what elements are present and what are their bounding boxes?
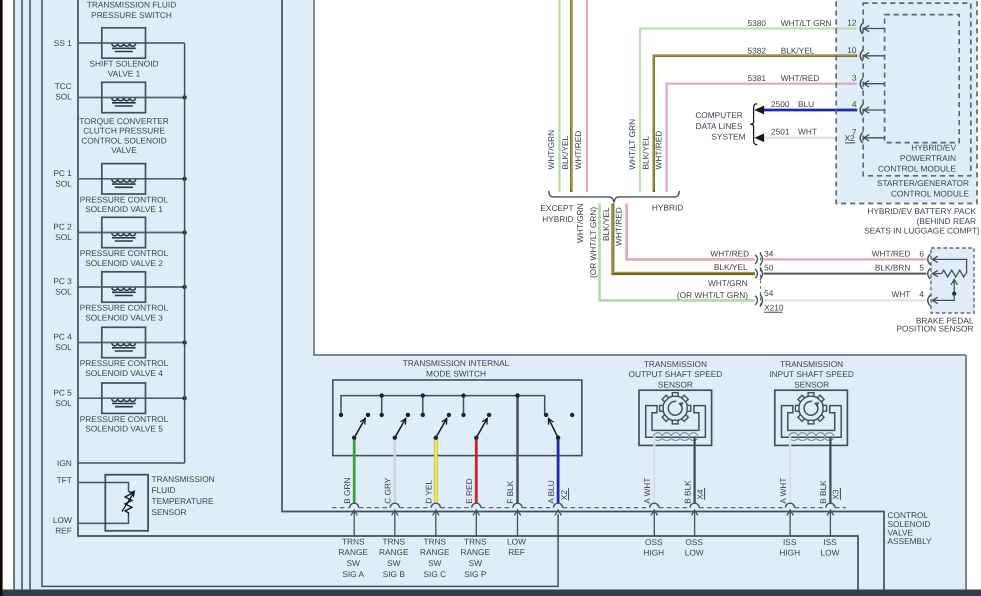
svg-text:F BLK: F BLK bbox=[505, 480, 515, 504]
svg-text:2501: 2501 bbox=[771, 127, 790, 137]
connector bump at 435.8 bbox=[431, 503, 440, 507]
svg-text:HYBRID: HYBRID bbox=[542, 214, 573, 224]
svg-text:WHT/RED: WHT/RED bbox=[614, 207, 624, 246]
svg-text:SOLENOID VALVE 5: SOLENOID VALVE 5 bbox=[85, 424, 163, 434]
svg-text:CONTROL MODULE: CONTROL MODULE bbox=[891, 189, 970, 199]
module pin 12 bbox=[860, 23, 863, 34]
svg-text:(OR WHT/LT GRN): (OR WHT/LT GRN) bbox=[677, 290, 748, 300]
svg-text:SEATS IN LUGGAGE COMPT): SEATS IN LUGGAGE COMPT) bbox=[864, 226, 980, 236]
wire (left bus 1) bbox=[13, 0, 15, 590]
svg-text:(BEHIND REAR: (BEHIND REAR bbox=[917, 216, 976, 226]
svg-text:WHT: WHT bbox=[891, 289, 910, 299]
arrows to computer data lines system bbox=[756, 106, 764, 113]
wire BLK/BRN to brake pedal sensor bbox=[764, 273, 927, 275]
mode switch contacts bbox=[339, 413, 343, 417]
svg-text:INPUT SHAFT SPEED: INPUT SHAFT SPEED bbox=[769, 369, 854, 379]
svg-text:SOLENOID VALVE 2: SOLENOID VALVE 2 bbox=[85, 258, 163, 268]
svg-text:POWERTRAIN: POWERTRAIN bbox=[900, 153, 956, 163]
svg-text:LOW: LOW bbox=[685, 548, 704, 558]
svg-text:SOLENOID VALVE 1: SOLENOID VALVE 1 bbox=[85, 204, 163, 214]
connector bump at 517.5 bbox=[513, 503, 522, 507]
svg-text:BLK/BRN: BLK/BRN bbox=[875, 262, 911, 272]
wire WHT/GRN (except hybrid) bbox=[558, 0, 560, 192]
switch blade 1 bbox=[354, 418, 365, 437]
wire 5380 WHT/LT GRN (hybrid) bbox=[640, 29, 857, 193]
svg-text:LOW: LOW bbox=[821, 548, 840, 558]
svg-text:SOL: SOL bbox=[55, 92, 72, 102]
svg-text:SIG B: SIG B bbox=[383, 569, 406, 579]
svg-text:FLUID: FLUID bbox=[152, 485, 176, 495]
svg-text:TCC: TCC bbox=[55, 81, 72, 91]
svg-text:X4: X4 bbox=[695, 489, 705, 500]
svg-text:SOLENOID VALVE 4: SOLENOID VALVE 4 bbox=[85, 368, 163, 378]
switch blade 5 (leans left) bbox=[549, 418, 559, 437]
connector bump at 354.2 bbox=[350, 503, 359, 507]
svg-text:E RED: E RED bbox=[464, 478, 474, 503]
svg-text:HYBRID/EV BATTERY PACK: HYBRID/EV BATTERY PACK bbox=[867, 206, 976, 216]
svg-text:PRESSURE SWITCH: PRESSURE SWITCH bbox=[91, 10, 172, 20]
svg-text:TRNS: TRNS bbox=[342, 536, 365, 546]
wire BLK/YEL (except hybrid) bbox=[570, 0, 573, 192]
svg-text:WHT/GRN: WHT/GRN bbox=[708, 278, 748, 288]
wire OSS A WHT bbox=[653, 437, 655, 504]
svg-text:CONTROL MODULE: CONTROL MODULE bbox=[878, 163, 957, 173]
svg-text:TRANSMISSION: TRANSMISSION bbox=[152, 474, 215, 484]
svg-text:HYBRID/EV: HYBRID/EV bbox=[911, 143, 956, 153]
wire OSS B BLK bbox=[693, 437, 695, 504]
svg-text:TRANSMISSION FLUID: TRANSMISSION FLUID bbox=[87, 0, 176, 10]
svg-text:X3: X3 bbox=[831, 489, 841, 500]
svg-text:OUTPUT SHAFT SPEED: OUTPUT SHAFT SPEED bbox=[629, 369, 723, 379]
wire 5381 WHT/RED (hybrid) bbox=[667, 84, 858, 192]
wire 2500 BLU (computer data line) bbox=[763, 109, 857, 112]
switch blade 2 bbox=[395, 418, 406, 437]
svg-text:(OR WHT/LT GRN): (OR WHT/LT GRN) bbox=[588, 207, 598, 278]
svg-text:PC 2: PC 2 bbox=[53, 222, 72, 232]
switch blade 4 bbox=[476, 418, 487, 437]
module pin 3 bbox=[860, 78, 863, 89]
svg-text:PC 1: PC 1 bbox=[53, 168, 72, 178]
svg-text:SHIFT SOLENOID: SHIFT SOLENOID bbox=[89, 59, 158, 69]
wire WHT/RED to X210 bbox=[627, 204, 755, 260]
wire (left bus 2) bbox=[21, 0, 23, 590]
svg-text:WHT/RED: WHT/RED bbox=[872, 248, 911, 258]
svg-text:B GRN: B GRN bbox=[342, 478, 352, 504]
svg-text:TORQUE CONVERTER: TORQUE CONVERTER bbox=[79, 116, 169, 126]
svg-text:5380: 5380 bbox=[748, 18, 767, 28]
svg-text:BLK/YEL: BLK/YEL bbox=[601, 207, 611, 241]
wire C GRY bbox=[393, 438, 396, 504]
svg-text:EXCEPT: EXCEPT bbox=[540, 203, 573, 213]
control solenoid valve assembly outline (outer path) bbox=[78, 0, 858, 590]
module pin 7 bbox=[860, 132, 863, 143]
wire: solenoid feed bus bbox=[184, 43, 186, 463]
svg-text:6: 6 bbox=[919, 248, 924, 258]
bottom frame bar bbox=[0, 590, 981, 596]
svg-text:SOL: SOL bbox=[55, 342, 72, 352]
svg-text:COMPUTER: COMPUTER bbox=[695, 110, 742, 120]
connector bump at 476.3 bbox=[472, 503, 481, 507]
svg-text:SENSOR: SENSOR bbox=[152, 507, 187, 517]
wire D YEL bbox=[434, 438, 438, 504]
svg-text:PC 5: PC 5 bbox=[53, 387, 72, 397]
svg-text:34: 34 bbox=[764, 248, 774, 258]
svg-text:LOW: LOW bbox=[507, 536, 526, 546]
svg-text:BLU: BLU bbox=[798, 99, 814, 109]
solenoid TCC bbox=[78, 97, 185, 99]
left frame border bbox=[0, 0, 3, 596]
svg-text:REF: REF bbox=[508, 547, 525, 557]
svg-text:SW: SW bbox=[387, 558, 401, 568]
svg-text:SOL: SOL bbox=[55, 179, 72, 189]
wire F BLK bbox=[516, 396, 519, 504]
connector bump at 558.1 bbox=[554, 503, 563, 507]
wire BLK/YEL to X210 bbox=[613, 204, 755, 274]
bus contact stub x=463.5 bbox=[463, 396, 465, 415]
svg-text:B BLK: B BLK bbox=[818, 480, 828, 504]
svg-text:ASSEMBLY: ASSEMBLY bbox=[888, 536, 933, 546]
svg-text:RANGE: RANGE bbox=[461, 547, 491, 557]
svg-text:WHT/RED: WHT/RED bbox=[654, 131, 664, 170]
bus junction F bbox=[515, 393, 519, 397]
svg-text:WHT/RED: WHT/RED bbox=[781, 73, 820, 83]
svg-text:TRANSMISSION INTERNAL: TRANSMISSION INTERNAL bbox=[403, 358, 510, 368]
signal arrows into connector bbox=[353, 510, 355, 536]
svg-text:SYSTEM: SYSTEM bbox=[711, 132, 745, 142]
module pin 10 bbox=[860, 50, 863, 61]
wire 5382 BLK/YEL (hybrid) bbox=[654, 56, 857, 192]
solenoid PC3 bbox=[78, 286, 185, 288]
solenoid PC4 bbox=[78, 342, 185, 344]
interior boundary edges bbox=[313, 0, 315, 355]
svg-text:SIG A: SIG A bbox=[342, 569, 364, 579]
svg-text:12: 12 bbox=[847, 18, 857, 28]
svg-text:OSS: OSS bbox=[645, 537, 663, 547]
svg-text:RANGE: RANGE bbox=[379, 547, 409, 557]
svg-text:BLK/YEL: BLK/YEL bbox=[641, 135, 651, 169]
svg-text:VALVE: VALVE bbox=[111, 145, 137, 155]
svg-text:ISS: ISS bbox=[783, 537, 797, 547]
svg-text:MODE SWITCH: MODE SWITCH bbox=[426, 369, 486, 379]
svg-text:5382: 5382 bbox=[748, 45, 767, 55]
wire 2501 WHT (computer data line) bbox=[763, 137, 857, 139]
wire IGN bbox=[78, 462, 185, 464]
svg-text:TRNS: TRNS bbox=[464, 536, 487, 546]
bus contact stub x=381.7 bbox=[381, 396, 383, 415]
svg-text:5381: 5381 bbox=[748, 73, 767, 83]
svg-text:TEMPERATURE: TEMPERATURE bbox=[152, 496, 215, 506]
svg-text:ISS: ISS bbox=[823, 537, 837, 547]
hybrid/ev battery pack interior fill bbox=[836, 0, 977, 204]
svg-text:WHT/GRN: WHT/GRN bbox=[575, 203, 585, 243]
connector row (dashed) bbox=[332, 507, 350, 509]
svg-text:WHT/RED: WHT/RED bbox=[710, 248, 749, 258]
svg-text:TRANSMISSION: TRANSMISSION bbox=[780, 359, 843, 369]
svg-text:X2: X2 bbox=[844, 133, 855, 143]
hybrid/ev powertrain control module (inner dashed box) bbox=[885, 15, 960, 143]
svg-text:SS 1: SS 1 bbox=[54, 38, 72, 48]
svg-text:PRESSURE CONTROL: PRESSURE CONTROL bbox=[80, 303, 169, 313]
svg-text:SOL: SOL bbox=[55, 232, 72, 242]
wire ISS B BLK bbox=[829, 437, 831, 504]
svg-text:POSITION SENSOR: POSITION SENSOR bbox=[897, 323, 974, 333]
svg-text:10: 10 bbox=[847, 45, 857, 55]
svg-text:WHT/RED: WHT/RED bbox=[573, 131, 583, 170]
connector bump at 790.1 bbox=[786, 503, 795, 507]
svg-text:X2: X2 bbox=[559, 490, 569, 501]
bus contact stub x=422.8 bbox=[422, 396, 424, 415]
solenoid PC1 bbox=[78, 178, 185, 180]
svg-text:SOL: SOL bbox=[55, 398, 72, 408]
svg-text:SOLENOID VALVE 3: SOLENOID VALVE 3 bbox=[85, 312, 163, 322]
connector bump at 694.6 bbox=[690, 503, 699, 507]
svg-text:PRESSURE CONTROL: PRESSURE CONTROL bbox=[80, 248, 169, 258]
wire E RED bbox=[475, 438, 478, 504]
svg-text:RANGE: RANGE bbox=[420, 547, 450, 557]
svg-text:SW: SW bbox=[469, 558, 483, 568]
solenoid PC5 bbox=[78, 397, 185, 399]
svg-text:3: 3 bbox=[852, 73, 857, 83]
wire ISS A WHT bbox=[789, 437, 791, 504]
transmission fluid temperature sensor bbox=[78, 483, 129, 492]
svg-text:X210: X210 bbox=[764, 302, 784, 312]
svg-text:54: 54 bbox=[764, 288, 774, 298]
svg-text:TRANSMISSION: TRANSMISSION bbox=[644, 359, 707, 369]
wire B GRN bbox=[353, 438, 356, 504]
connector bump at 830.4 bbox=[826, 503, 835, 507]
module pin 4 bbox=[860, 105, 863, 116]
svg-text:REF: REF bbox=[55, 526, 72, 536]
svg-text:RANGE: RANGE bbox=[338, 547, 368, 557]
mode switch bus bbox=[341, 396, 545, 415]
svg-text:C GRY: C GRY bbox=[383, 477, 393, 504]
svg-text:WHT/GRN: WHT/GRN bbox=[546, 130, 556, 170]
brace: except-hybrid / hybrid merge bbox=[549, 191, 680, 203]
svg-text:2500: 2500 bbox=[771, 99, 790, 109]
svg-text:SW: SW bbox=[428, 558, 442, 568]
svg-text:4: 4 bbox=[919, 289, 924, 299]
wire A BLU bbox=[557, 438, 560, 504]
svg-text:WHT/LT GRN: WHT/LT GRN bbox=[627, 119, 637, 170]
wire: LOW REF return (left riser, bottom run to X2 pin A) bbox=[42, 0, 558, 586]
svg-text:VALVE 1: VALVE 1 bbox=[108, 68, 141, 78]
svg-text:SOL: SOL bbox=[55, 287, 72, 297]
svg-text:WHT: WHT bbox=[798, 127, 817, 137]
svg-text:BLK/YEL: BLK/YEL bbox=[781, 45, 815, 55]
brace: computer data lines system bbox=[750, 104, 757, 145]
connector bump at 654.3 bbox=[650, 503, 659, 507]
wire (left bus 3) bbox=[29, 0, 31, 590]
wire WHT/RED to brake pedal sensor bbox=[764, 258, 927, 260]
solenoid PC2 bbox=[78, 232, 185, 234]
svg-text:4: 4 bbox=[852, 99, 857, 109]
wire WHT/RED (except hybrid) bbox=[586, 0, 588, 192]
svg-text:A WHT: A WHT bbox=[642, 478, 652, 504]
control solenoid valve assembly outline (inner path) bbox=[282, 0, 884, 590]
svg-text:STARTER/GENERATOR: STARTER/GENERATOR bbox=[877, 178, 969, 188]
switch pivot dots bbox=[352, 436, 356, 440]
brake pedal position sensor bbox=[931, 248, 974, 313]
svg-text:D YEL: D YEL bbox=[424, 480, 434, 504]
svg-text:IGN: IGN bbox=[57, 458, 72, 468]
svg-text:A WHT: A WHT bbox=[778, 478, 788, 504]
svg-text:PC 4: PC 4 bbox=[53, 332, 72, 342]
svg-text:OSS: OSS bbox=[685, 537, 703, 547]
svg-text:PRESSURE CONTROL: PRESSURE CONTROL bbox=[80, 195, 169, 205]
svg-text:SIG P: SIG P bbox=[464, 569, 487, 579]
hybrid/ev battery pack (outer dashed box) bbox=[836, 0, 977, 204]
starter/generator control module (middle dashed box) bbox=[863, 3, 971, 176]
svg-text:CLUTCH PRESSURE: CLUTCH PRESSURE bbox=[83, 126, 165, 136]
svg-text:CONTROL SOLENOID: CONTROL SOLENOID bbox=[81, 135, 166, 145]
svg-text:SENSOR: SENSOR bbox=[658, 379, 693, 389]
svg-text:SIG C: SIG C bbox=[424, 569, 447, 579]
svg-text:HIGH: HIGH bbox=[643, 548, 664, 558]
svg-text:BLK/YEL: BLK/YEL bbox=[714, 262, 748, 272]
svg-text:DATA LINES: DATA LINES bbox=[696, 121, 743, 131]
svg-text:SENSOR: SENSOR bbox=[794, 379, 829, 389]
svg-text:50: 50 bbox=[764, 263, 774, 273]
solenoid SS1 bbox=[78, 42, 185, 44]
svg-text:5: 5 bbox=[919, 262, 924, 272]
svg-text:HIGH: HIGH bbox=[779, 548, 800, 558]
svg-text:BLK/YEL: BLK/YEL bbox=[560, 135, 570, 169]
svg-text:LOW: LOW bbox=[53, 515, 72, 525]
wire WHT/GRN (OR WHT/LT GRN) to X210 bbox=[600, 204, 755, 301]
svg-text:TFT: TFT bbox=[57, 475, 72, 485]
switch blade 3 bbox=[436, 418, 447, 437]
svg-text:SW: SW bbox=[347, 558, 361, 568]
svg-text:HYBRID: HYBRID bbox=[652, 202, 683, 212]
svg-text:PC 3: PC 3 bbox=[53, 276, 72, 286]
svg-text:PRESSURE CONTROL: PRESSURE CONTROL bbox=[80, 358, 169, 368]
svg-text:TRNS: TRNS bbox=[383, 536, 406, 546]
svg-text:PRESSURE CONTROL: PRESSURE CONTROL bbox=[80, 414, 169, 424]
svg-text:WHT/LT GRN: WHT/LT GRN bbox=[781, 18, 832, 28]
connector bump at 394.8 bbox=[390, 503, 399, 507]
wire WHT to brake pedal sensor bbox=[764, 299, 927, 301]
svg-text:A BLU: A BLU bbox=[546, 480, 556, 504]
svg-text:TRNS: TRNS bbox=[424, 536, 447, 546]
svg-text:B BLK: B BLK bbox=[682, 480, 692, 504]
connector X210 (in-line) bbox=[760, 252, 762, 308]
